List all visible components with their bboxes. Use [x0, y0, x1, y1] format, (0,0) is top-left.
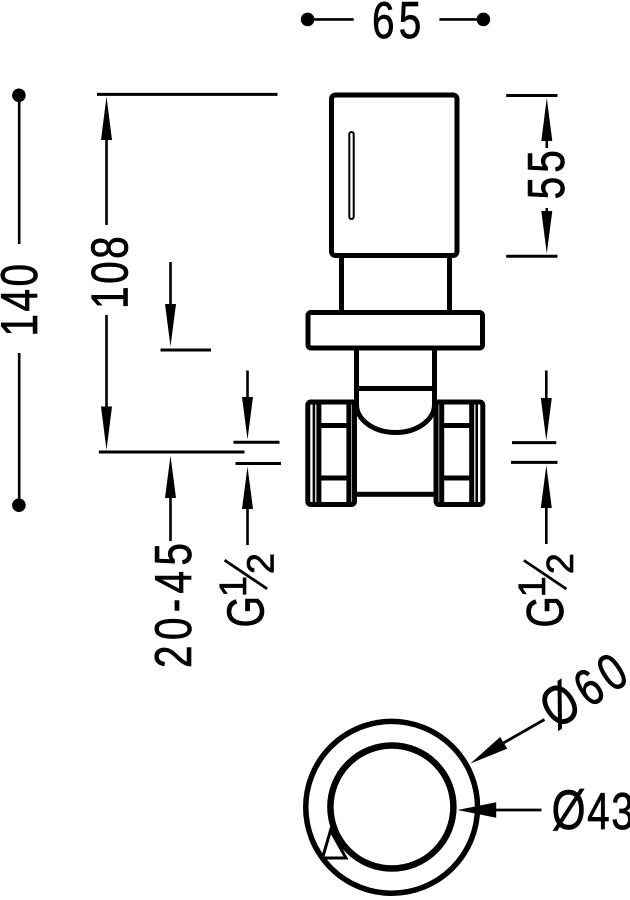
- dim 55 bottom tick: [506, 255, 557, 258]
- left port nut divider upper: [319, 423, 349, 428]
- lower stem: [357, 348, 435, 389]
- D60 leader line: [503, 720, 545, 744]
- cartridge dome: [357, 388, 435, 433]
- dim 108 arrow down: [101, 407, 112, 451]
- left port nut divider lower: [319, 476, 349, 481]
- dim 108 shaft upper: [105, 125, 108, 225]
- dim 65 right dot: [477, 13, 491, 27]
- wall min line: [161, 349, 212, 352]
- upper stem: [342, 256, 450, 313]
- dim 55 arrow up: [541, 98, 552, 141]
- dim 20-45 arrow up: [165, 456, 176, 499]
- right port nut divider lower: [442, 476, 472, 481]
- right port nut right line: [469, 405, 474, 503]
- inner circle (D43): [330, 746, 453, 869]
- right G12 label: [512, 553, 582, 627]
- left G12 arrow down: [242, 397, 253, 440]
- right G12 arrow up: [541, 465, 552, 508]
- dim 55 shaft lower: [545, 208, 548, 215]
- svg-text:65: 65: [372, 0, 426, 49]
- dim 140 top dot: [12, 89, 26, 103]
- D43 arrowhead: [458, 802, 497, 817]
- left G12 lower shaft: [246, 505, 249, 545]
- right port nut left line: [439, 405, 444, 503]
- dim 140 line lower: [18, 353, 21, 501]
- left G12 thread line lower: [236, 462, 282, 465]
- dim 65 left dot: [301, 13, 315, 27]
- left port nut left line: [316, 405, 321, 503]
- svg-text:1: 1: [213, 576, 255, 597]
- dim 20-45 upper shaft: [169, 262, 172, 310]
- svg-text:G: G: [516, 596, 574, 628]
- svg-text:1: 1: [512, 576, 554, 597]
- dim 108 arrow up: [101, 97, 112, 141]
- right port outer: [436, 402, 483, 505]
- right G12 arrow down: [541, 398, 552, 441]
- dim 55 shaft upper: [545, 137, 548, 148]
- dim 108 shaft lower: [105, 315, 108, 420]
- D43 leader line: [494, 809, 542, 812]
- left G12 upper shaft: [246, 371, 249, 404]
- dim 108 bottom tick / wall line: [99, 451, 245, 454]
- svg-text:140: 140: [0, 261, 48, 336]
- handle: [332, 95, 458, 256]
- valve body center block: [355, 402, 437, 494]
- escutcheon plate: [308, 313, 483, 349]
- svg-text:2: 2: [241, 553, 283, 574]
- dim 140 line upper: [18, 100, 21, 244]
- svg-text:108: 108: [81, 234, 139, 309]
- left port cap line thin: [313, 405, 316, 503]
- dim 65 right line: [439, 18, 477, 21]
- svg-text:20-45: 20-45: [144, 538, 202, 668]
- right G12 thread line upper: [512, 441, 556, 444]
- dim 65 left line: [313, 18, 354, 21]
- svg-text:Ø43: Ø43: [552, 779, 630, 841]
- left port outer: [308, 402, 355, 505]
- right port cap line thin: [475, 405, 478, 503]
- left port nut right line: [346, 405, 351, 503]
- svg-text:G: G: [217, 596, 275, 628]
- dim 20-45 arrow down: [165, 304, 176, 347]
- right G12 label fraction slash: [524, 560, 567, 589]
- D60 arrowhead: [471, 737, 508, 764]
- outer circle (D60): [306, 721, 478, 893]
- dim 55 arrow down: [541, 211, 552, 254]
- dim 20-45 lower shaft: [169, 494, 172, 541]
- left G12 arrow up: [242, 467, 253, 510]
- right G12 upper shaft: [545, 371, 548, 404]
- right G12 lower shaft: [545, 504, 548, 544]
- dim 55 top tick: [506, 94, 557, 97]
- left G12 thread line upper: [234, 441, 280, 444]
- right G12 thread line lower: [511, 461, 558, 464]
- right port nut divider upper: [442, 423, 472, 428]
- svg-text:55: 55: [517, 146, 575, 199]
- dim 140 bottom dot: [12, 498, 26, 512]
- svg-text:2: 2: [540, 553, 582, 574]
- dim 108 top tick: [97, 93, 278, 96]
- left G12 label fraction slash: [225, 560, 268, 589]
- lever indicator triangle: [323, 831, 347, 859]
- handle slot: [349, 132, 353, 219]
- left G12 label: [213, 553, 283, 628]
